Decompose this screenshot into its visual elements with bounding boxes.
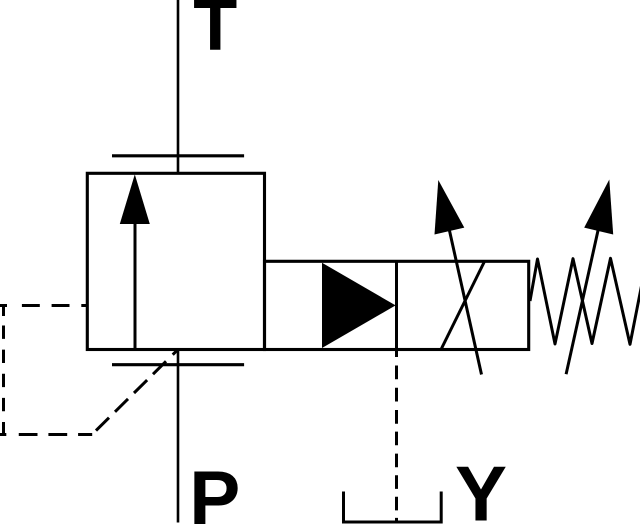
pilot stage rectangle [265, 261, 529, 349]
wire T line vertical [177, 0, 180, 173]
pilot dashed line Y (vertical) [395, 348, 398, 521]
adjustment arrow 1 head [435, 180, 465, 235]
svg-text:T: T [193, 0, 237, 66]
adjustment arrow 2 head [584, 180, 613, 235]
pilot dashed line loop (left) [0, 306, 177, 435]
wire lower port crossing line [112, 363, 244, 366]
wire upper port crossing line [112, 154, 244, 157]
adjustment arrow 2 shaft [566, 190, 607, 374]
flow arrow inside box (head) [120, 174, 150, 224]
flow arrow inside box (shaft) [134, 222, 137, 350]
main valve body box [87, 173, 264, 349]
svg-text:P: P [189, 456, 240, 524]
throttle cross line [442, 262, 485, 349]
cell divider line [395, 261, 398, 351]
adjustment arrow 1 shaft [440, 188, 482, 375]
svg-text:Y: Y [455, 450, 507, 524]
check valve triangle [322, 263, 396, 348]
wire P line vertical [177, 350, 180, 523]
spring [530, 258, 640, 344]
drain bracket symbol [344, 492, 442, 523]
